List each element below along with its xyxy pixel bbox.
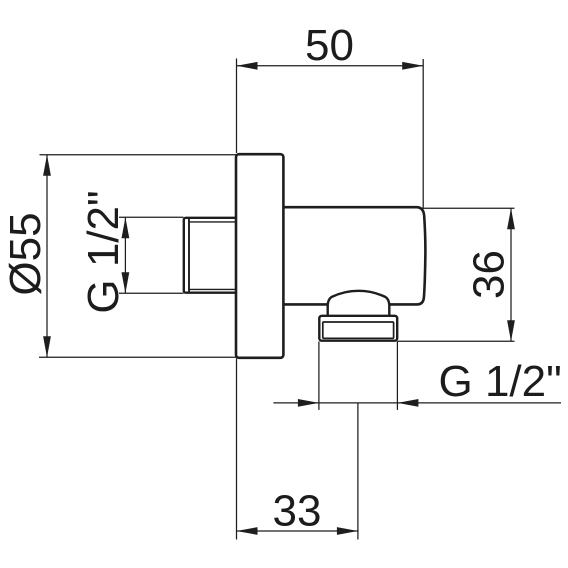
dimension G 1/2 left: bottom arrowhead: [122, 272, 130, 293]
dimension G 1/2 left: top arrowhead: [122, 217, 130, 238]
dimension 50: left arrowhead: [237, 62, 258, 70]
dimension G 1/2 bottom: left arrowhead: [298, 399, 319, 407]
dimension G 1/2 bottom: right extension line: [396, 342, 398, 410]
dimension 50: left extension line: [236, 59, 238, 154]
dimension 36: dimension line: [510, 208, 512, 341]
dimension 36: bottom arrowhead: [507, 320, 515, 341]
svg-text:G 1/2": G 1/2": [79, 190, 128, 313]
svg-text:G 1/2": G 1/2": [439, 357, 562, 406]
dimension 33: left extension line: [236, 359, 238, 540]
svg-text:50: 50: [305, 21, 354, 70]
nut inner bevel: [323, 322, 394, 338]
dimension G 1/2 bottom: left extension line: [318, 342, 320, 410]
svg-text:33: 33: [273, 487, 322, 536]
dimension 36: top extension line: [422, 207, 515, 209]
dimension Ø55: top extension line: [40, 154, 237, 156]
dimension 36: bottom extension line: [397, 340, 514, 342]
dimension 50: dimension line: [237, 65, 424, 67]
dimension Ø55: bottom arrowhead: [43, 336, 51, 357]
dimension G 1/2 left: dimension line: [124, 217, 126, 293]
dimension Ø55: bottom extension line: [39, 356, 236, 358]
body (outlet housing, side view): [281, 207, 425, 304]
nipple thread crest line top: [189, 221, 240, 223]
dimension 33: right arrowhead: [337, 527, 358, 535]
dimension Ø55: dimension line: [46, 155, 48, 357]
nipple thread chamfer line: [188, 219, 190, 293]
svg-text:36: 36: [465, 250, 514, 299]
dimension 36: top arrowhead: [507, 208, 515, 229]
dimension 33: dimension line: [237, 530, 358, 532]
wall plate (escutcheon, side view): [236, 154, 283, 358]
dimension G 1/2 bottom: right arrowhead: [397, 399, 418, 407]
nut (bottom outlet nut, outer): [319, 316, 397, 341]
dimension G 1/2 bottom: dimension line: [273, 402, 561, 404]
dimension Ø55: top arrowhead: [43, 155, 51, 176]
dimension G 1/2 left: top extension line: [119, 216, 184, 218]
dimension 33: left arrowhead: [237, 527, 258, 535]
nipple thread crest line bottom: [189, 288, 240, 290]
svg-text:Ø55: Ø55: [1, 212, 50, 295]
inlet nipple G 1/2 (left, behind plate): [184, 218, 240, 293]
dimension 50: right arrowhead: [402, 62, 423, 70]
dimension 50: right extension line: [422, 59, 424, 209]
dimension G 1/2 bottom: centre extension line (shared with 33): [357, 403, 359, 540]
dimension G 1/2 left: bottom extension line: [119, 292, 184, 294]
dome (bottom outlet boss): [328, 291, 390, 317]
